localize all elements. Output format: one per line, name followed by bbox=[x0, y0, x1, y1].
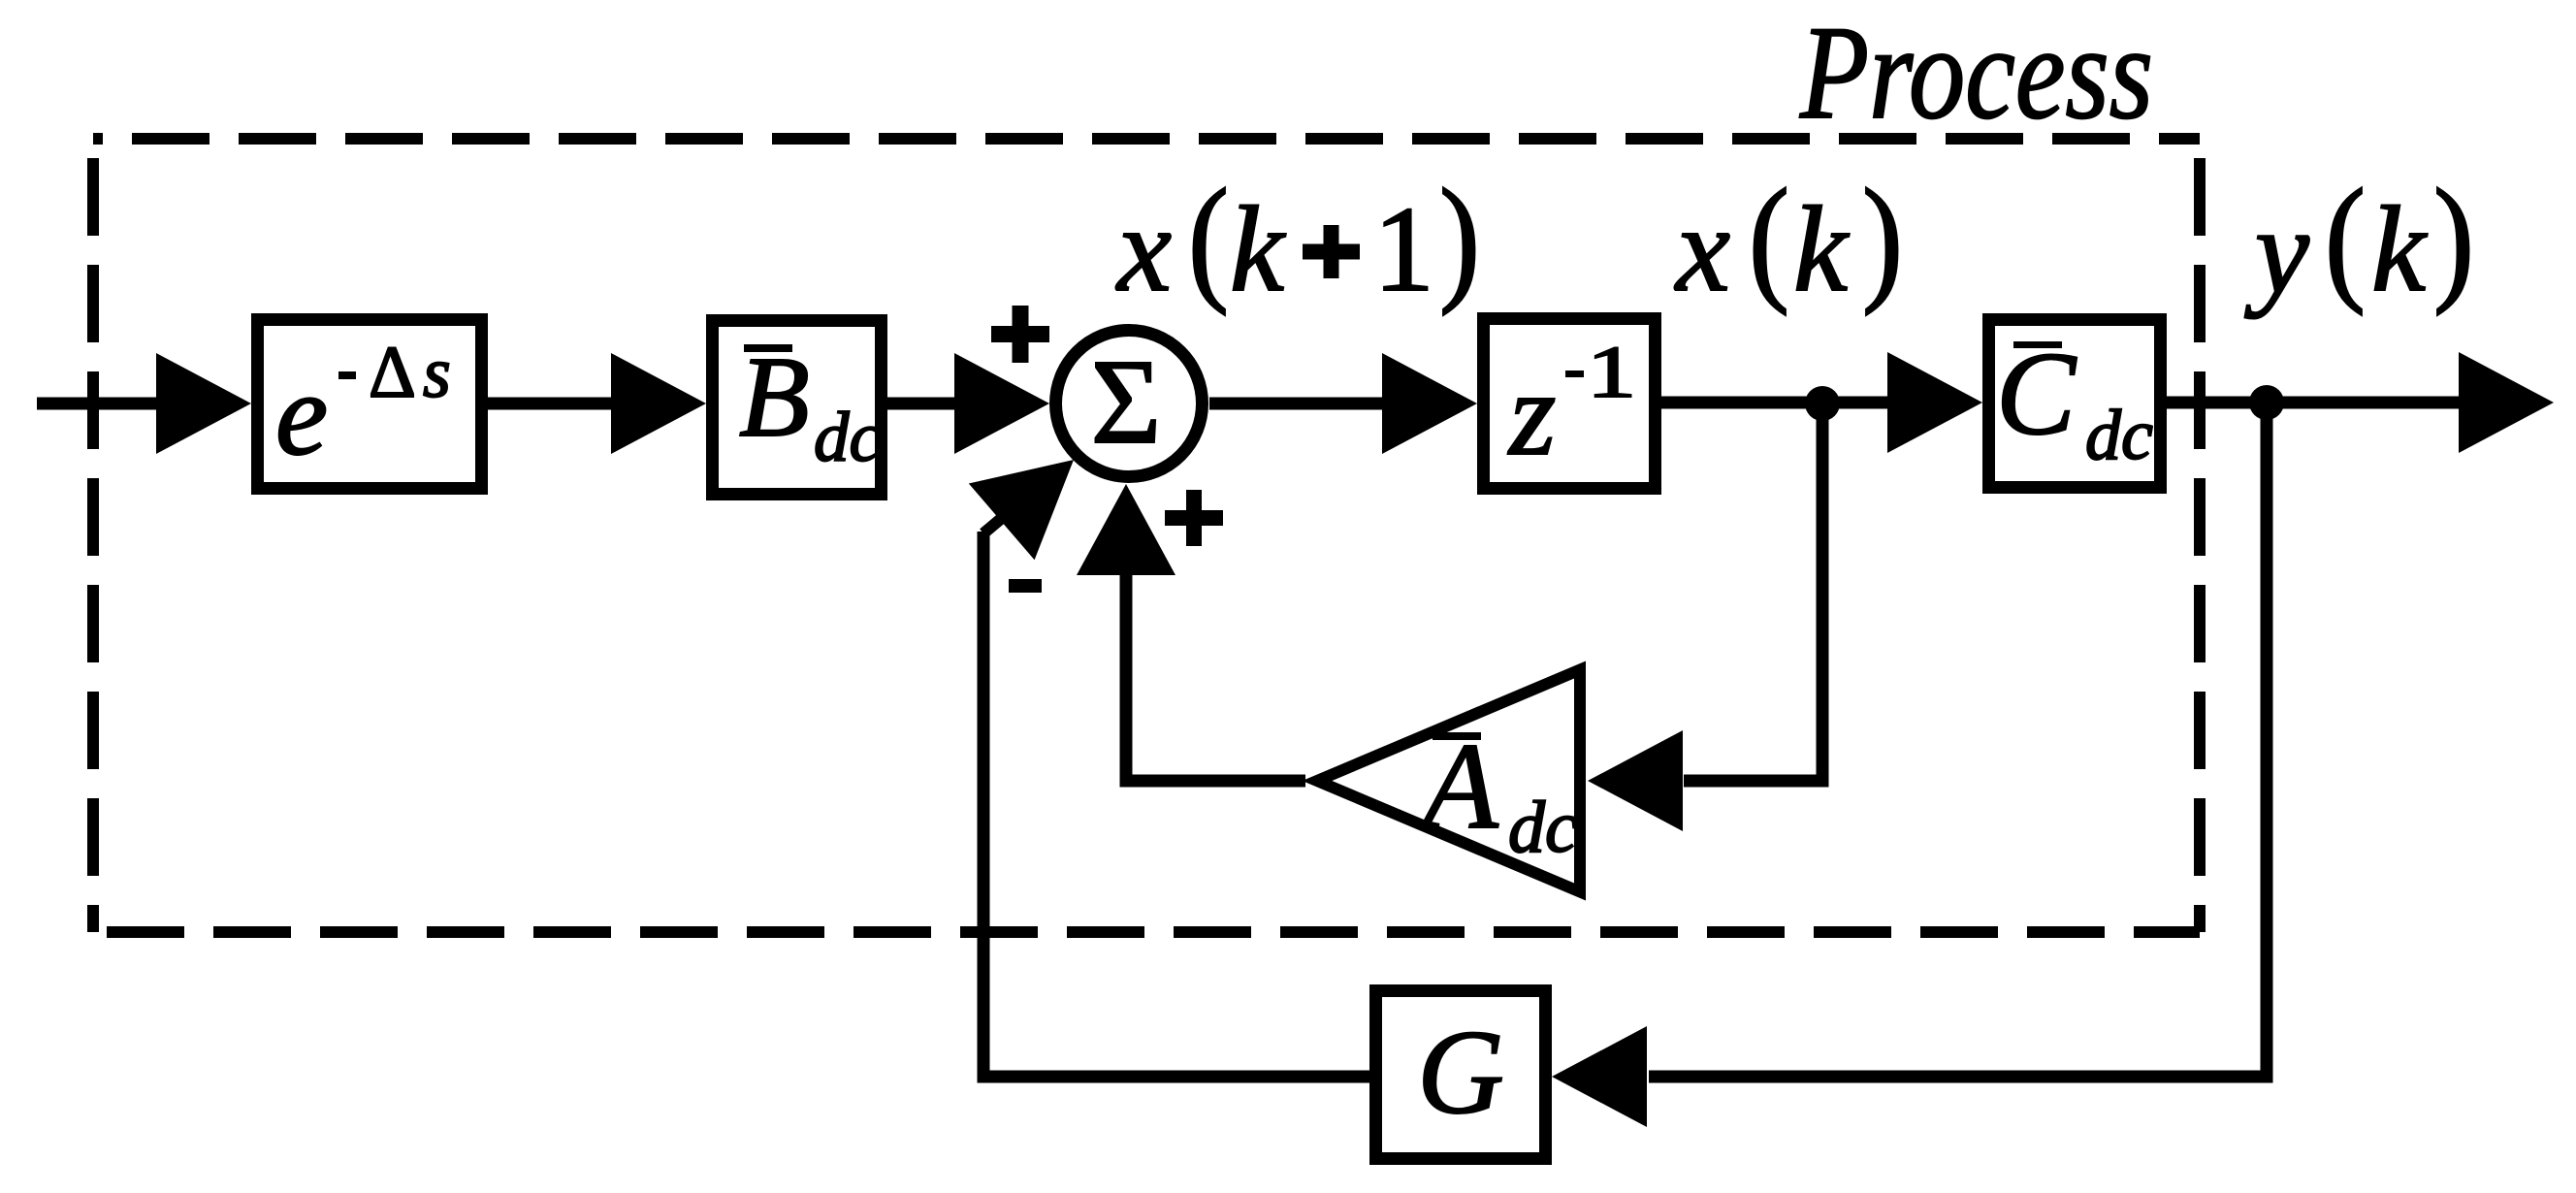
block e^-Delta-s (continuous delay) bbox=[258, 320, 482, 489]
arrowhead into B block bbox=[611, 353, 706, 454]
wire: z^-1 to C block bbox=[1661, 397, 1899, 409]
arrowhead into delay block bbox=[156, 353, 251, 454]
wire: input line into process bbox=[37, 398, 167, 410]
arrowhead into C block bbox=[1887, 352, 1982, 453]
wire: B block to summing junction bbox=[887, 398, 964, 410]
arrowhead into A_dc triangle bbox=[1588, 730, 1683, 831]
arrowhead diagonal into summer (minus input) bbox=[969, 460, 1074, 560]
svg-text:): ) bbox=[1439, 161, 1480, 316]
plus sign for bottom summer input bbox=[1165, 510, 1223, 526]
svg-text:Σ: Σ bbox=[1091, 336, 1162, 469]
svg-text:(: ( bbox=[1188, 161, 1229, 316]
block G (feedback gain) bbox=[1376, 991, 1546, 1159]
svg-text:z: z bbox=[1507, 347, 1556, 480]
svg-text:G: G bbox=[1417, 1006, 1504, 1139]
svg-text:x: x bbox=[1115, 182, 1172, 317]
arrowhead output bbox=[2459, 352, 2554, 453]
arrowhead into summer from left bbox=[954, 353, 1049, 454]
summing junction Sigma circle bbox=[1056, 331, 1203, 477]
wire: x(k) node down to A_dc triangle input bbox=[1684, 403, 1822, 781]
svg-text:x: x bbox=[1674, 182, 1730, 317]
wire: G output left then up toward summer bbox=[983, 532, 1369, 1077]
svg-text:Process: Process bbox=[1799, 0, 2153, 146]
arrowhead into z^-1 block bbox=[1382, 353, 1477, 454]
arrowhead up into summer bottom bbox=[1077, 484, 1175, 575]
svg-text:(: ( bbox=[2325, 161, 2366, 316]
svg-text:dc: dc bbox=[2085, 396, 2153, 475]
wire: A_dc output to summer bottom input bbox=[1126, 572, 1305, 781]
svg-text:s: s bbox=[423, 334, 451, 413]
wire: delay block to B block bbox=[488, 398, 621, 410]
svg-text:(: ( bbox=[1749, 161, 1789, 316]
gain triangle Abar_dc bbox=[1317, 670, 1580, 892]
svg-text:1: 1 bbox=[1587, 332, 1636, 413]
wire: short diagonal into minus arrowhead bbox=[983, 507, 1014, 533]
wire: C block to output bbox=[2167, 397, 2470, 409]
block z^-1 (unit delay) bbox=[1484, 319, 1656, 489]
svg-text:dc: dc bbox=[814, 398, 881, 476]
svg-text:k: k bbox=[1230, 182, 1286, 317]
svg-text:k: k bbox=[1793, 182, 1850, 317]
svg-text:k: k bbox=[2371, 182, 2428, 317]
block Bbar_dc (input matrix) bbox=[713, 321, 882, 495]
node: y(k) branch dot bbox=[2249, 385, 2284, 420]
svg-text:dc: dc bbox=[1508, 787, 1578, 868]
block Cbar_dc (output matrix) bbox=[1989, 320, 2161, 488]
wire: summer to z^-1 block bbox=[1209, 398, 1394, 410]
arrowhead into G block bbox=[1552, 1026, 1647, 1127]
node: x(k) branch dot bbox=[1805, 386, 1840, 421]
wire: y(k) node down and left to G block bbox=[1649, 403, 2267, 1077]
svg-text:1: 1 bbox=[1373, 182, 1434, 317]
svg-text:y: y bbox=[2244, 184, 2309, 319]
svg-text:Δ: Δ bbox=[369, 332, 416, 413]
svg-text:e: e bbox=[275, 349, 328, 480]
dashed boundary of Process bbox=[93, 133, 2200, 145]
plus sign for left summer input bbox=[991, 326, 1049, 342]
minus sign for feedback summer input bbox=[1009, 579, 1042, 593]
svg-text:): ) bbox=[2433, 161, 2474, 316]
svg-text:): ) bbox=[1862, 161, 1903, 316]
